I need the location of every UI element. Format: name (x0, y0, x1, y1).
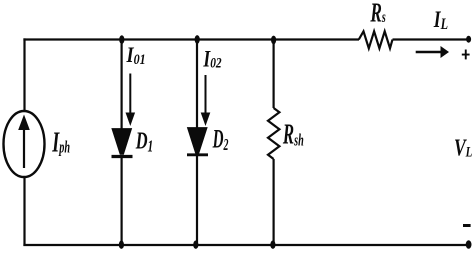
node dot bottom D2 (193, 241, 198, 249)
label D1 (135, 126, 153, 156)
node dot bottom D1 (119, 241, 124, 249)
wire Rsh branch lower (273, 159, 275, 245)
terminal minus sign (463, 224, 471, 227)
current arrow I02 (201, 75, 211, 126)
wire top bus (left corner to Rs) (23, 38, 359, 40)
terminal dot top right (466, 36, 471, 43)
terminal plus sign (462, 50, 470, 60)
label IL (433, 8, 448, 34)
node dot bottom Rsh (270, 241, 275, 249)
wire diode D1 branch lower (120, 156, 122, 245)
label Rsh (282, 118, 304, 150)
current arrow IL (416, 46, 449, 58)
label VL (454, 134, 472, 161)
wire left lower (23, 176, 25, 246)
wire diode D2 branch lower (196, 155, 198, 245)
label Iph (52, 128, 71, 159)
node dot top D1 (119, 35, 124, 44)
resistor Rsh (268, 108, 279, 159)
resistor Rs (359, 31, 393, 48)
wire diode D1 branch upper (120, 40, 122, 131)
label I01 (126, 44, 146, 68)
current source Iph (4, 111, 45, 177)
node dot top Rsh (271, 36, 276, 45)
diode D1 (112, 129, 133, 157)
terminal dot bottom right (466, 240, 472, 249)
diode D2 (187, 128, 208, 155)
label D2 (212, 124, 229, 155)
wire top right (Rs to terminal) (393, 38, 468, 40)
label I02 (203, 47, 222, 72)
wire bottom bus (23, 244, 468, 246)
wire diode D2 branch upper (196, 40, 198, 130)
current arrow I01 (126, 74, 136, 127)
wire Rsh branch upper (273, 40, 275, 109)
wire left upper (23, 38, 25, 112)
label Rs (370, 0, 386, 28)
node dot top D2 (195, 35, 200, 44)
